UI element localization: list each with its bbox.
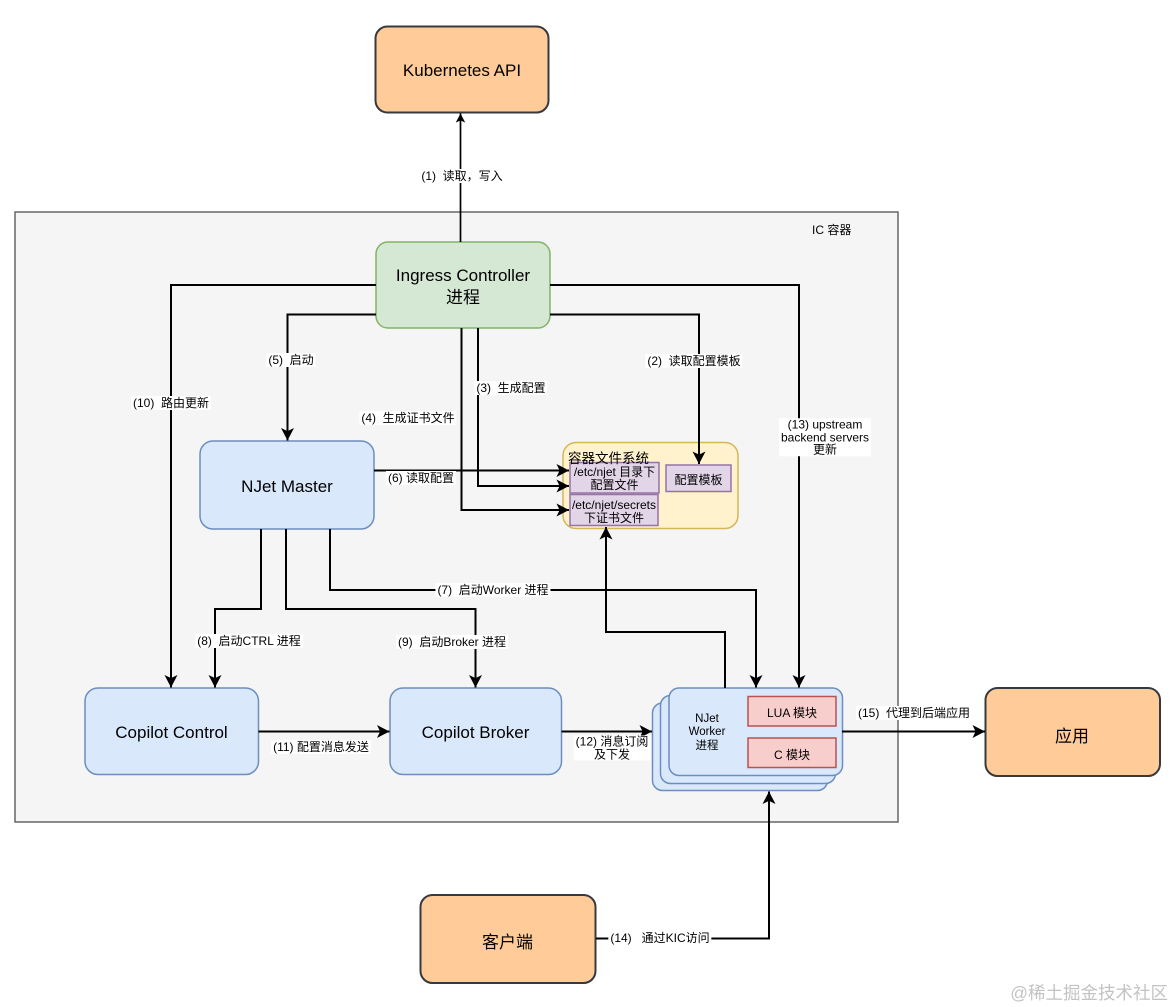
wire (3) Ingress->conf file [478, 328, 569, 486]
node App [986, 688, 1161, 776]
wire (4) Ingress->secret file [462, 328, 570, 510]
wire (14) Client->Worker [596, 792, 769, 939]
wire (12) Broker->Worker [562, 731, 653, 733]
node text template [666, 464, 731, 492]
wire (7) Master->Worker [330, 529, 756, 688]
node text Ingress Controller [376, 242, 550, 328]
node text Copilot Broker [390, 688, 561, 775]
node text NJet Worker [669, 688, 745, 775]
label (11) [271, 740, 371, 754]
node secret file [570, 495, 658, 526]
node Copilot Broker [390, 688, 562, 775]
node conf file [570, 463, 659, 494]
node Copilot Control [85, 688, 259, 775]
node text C module [748, 738, 836, 768]
label (15) [856, 706, 972, 720]
node NJet Worker stack [653, 703, 828, 791]
label (5) [266, 353, 315, 367]
label (1) [419, 169, 504, 183]
IC container [15, 212, 898, 822]
node file system [563, 443, 738, 529]
label file system title [568, 447, 649, 467]
node text LUA module [748, 696, 836, 726]
wire (5) Ingress->Master [288, 315, 377, 441]
node template [666, 465, 731, 492]
node LUA module [748, 697, 836, 727]
label (3) [474, 381, 547, 395]
label (7) [435, 583, 550, 597]
wire (11) Control->Broker [259, 731, 390, 733]
wire (9) Master->Broker [286, 529, 476, 688]
node NJet Master [200, 441, 374, 529]
node text Kubernetes API [375, 26, 549, 112]
wire (13) Ingress->Worker [550, 285, 799, 688]
watermark [1010, 980, 1168, 1005]
label (9) [396, 635, 508, 649]
label (14) [608, 931, 711, 945]
node text conf file [570, 463, 659, 492]
node text App [985, 689, 1159, 776]
node text Copilot Control [85, 688, 258, 775]
label (4) [359, 411, 456, 425]
wire Worker->secret file [606, 527, 725, 688]
label (10) [131, 396, 211, 410]
wire (8) Master->Control [215, 529, 261, 688]
label (8) [195, 634, 303, 648]
node text NJet Master [200, 441, 374, 529]
wire (2) Ingress->template [550, 315, 699, 465]
wire (6) Master->conf file [374, 470, 569, 472]
wire (15) Worker->App [842, 731, 985, 733]
label IC container [812, 221, 851, 238]
label (6) [386, 471, 456, 485]
node Kubernetes API [376, 27, 549, 113]
node text Client [420, 895, 595, 983]
node text secret file [570, 495, 658, 526]
label (12) [574, 736, 651, 761]
wire (10) Ingress->Control [171, 285, 376, 688]
label (2) [645, 354, 742, 368]
node Ingress Controller [376, 242, 550, 328]
node Client [421, 895, 596, 983]
label (13) [779, 418, 871, 456]
wire (1) Ingress->K8s [460, 114, 462, 243]
node C module [748, 738, 836, 768]
